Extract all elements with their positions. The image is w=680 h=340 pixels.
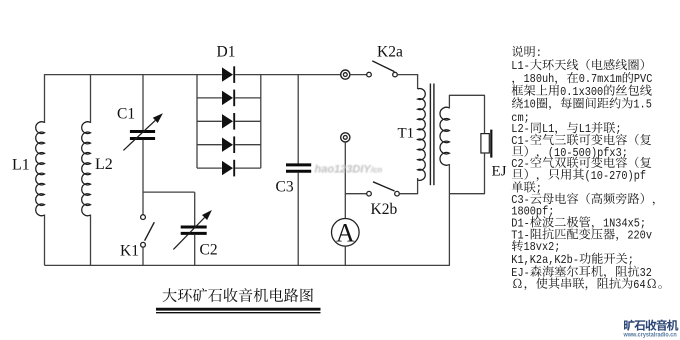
svg-text:EJ-: EJ- [511,266,530,280]
diode D1 parallel element 2 [222,91,233,105]
variable capacitor C1 arrow [123,120,155,150]
svg-text:(10-270)pf: (10-270)pf [585,169,647,183]
svg-text:L1: L1 [579,122,591,136]
svg-text:C2: C2 [200,241,218,258]
svg-text:hao123DIY/cn: hao123DIY/cn [315,164,383,176]
svg-text:C2-: C2- [511,157,530,171]
wire binding post to ammeter [344,142,346,219]
diode ladder rung 2 wires [197,97,222,99]
watermark [315,164,383,176]
svg-text:L1: L1 [542,122,554,136]
svg-text:L1: L1 [12,156,30,173]
svg-text:K1,K2a,K2b-: K1,K2a,K2b- [511,253,579,267]
wire earphone bottom loop [484,153,486,194]
binding post terminal (top) [341,70,350,79]
diode ladder rung 5 wires [197,167,222,169]
diode D1 (top, in series on top rail) [222,67,233,81]
variable capacitor C2 branch wire upper [194,192,196,225]
svg-text:(10-500)pfx3;: (10-500)pfx3; [548,146,628,160]
ammeter A [332,219,360,247]
transformer T1 primary coil [418,89,426,181]
wire K2a to transformer primary top [397,74,418,76]
svg-text:L1-: L1- [511,59,530,73]
svg-text:K1: K1 [120,243,139,260]
title underline double [156,308,321,311]
inductor L2 branch wires [90,74,92,123]
diode D1 parallel element 5 [222,161,233,175]
variable capacitor C2 arrow [173,218,204,250]
wire C1 to K1 and junction to C2 [142,140,144,215]
svg-text:1.5: 1.5 [633,98,652,112]
title 大环矿石收音机电路图 [163,288,313,302]
svg-text:180uh: 180uh [524,72,555,86]
switch K2b [367,191,372,196]
variable capacitor C1 branch wire upper [142,74,144,130]
wire top rail right segment to binding post [235,74,341,76]
svg-text::: : [536,46,542,60]
svg-text:A: A [336,218,355,247]
earphone EJ symbol [481,134,489,153]
wire top rail left segment [45,74,222,76]
capacitor C3 plates [286,163,311,166]
logo 旷石收音机 [624,320,678,331]
transformer T1 core [429,84,431,186]
switch K1 [141,215,146,220]
variable capacitor C1 plates [130,130,155,133]
inductor L2 coil [82,122,91,216]
svg-text:D1: D1 [217,44,236,61]
diode ladder left rail [196,74,198,168]
svg-text:www.crystalradio.cn: www.crystalradio.cn [623,332,677,339]
diode D1 parallel element 3 [222,114,233,128]
wire K2b to transformer primary bottom [399,193,418,195]
wire secondary top to earphone [448,95,450,108]
svg-text:220v: 220v [627,229,652,243]
wire K1 to bottom rail [142,247,144,265]
svg-text:C3: C3 [276,178,294,195]
diode ladder rung 4 wires [197,144,222,146]
diode ladder rung 3 wires [197,120,222,122]
svg-text:;: ; [536,182,542,196]
svg-text:T1: T1 [398,126,415,142]
wire ammeter to bottom rail [344,246,346,265]
switch K2a [367,72,372,77]
svg-text:EJ: EJ [492,164,507,180]
svg-text:0.1x300: 0.1x300 [560,85,603,99]
diode ladder right rail [260,74,262,168]
svg-text:64: 64 [633,278,645,292]
wire secondary bottom to bottom rail [448,164,450,265]
svg-text:K2b: K2b [371,201,398,218]
svg-text:PVC: PVC [634,72,653,86]
notes text block 说明 [511,46,661,292]
wire C2 to bottom rail [194,235,196,266]
wire C3 to bottom rail [297,173,299,266]
wire junction to K2b [345,193,366,195]
svg-text:10: 10 [524,98,536,112]
svg-text:C1: C1 [117,105,135,122]
capacitor C3 branch wire upper [297,74,299,164]
inductor L1 coil [36,122,45,216]
diode D1 parallel element 4 [222,138,233,152]
inductor L1 branch wires [44,74,46,123]
variable capacitor C2 plates [181,226,207,229]
wire from binding post to switch K2a [350,74,367,76]
wire bottom rail [45,264,450,266]
transformer T1 secondary coil [440,107,449,165]
binding post terminal (middle) [341,133,350,142]
svg-text:C1-: C1- [511,134,530,148]
svg-text:K2a: K2a [377,43,403,60]
svg-text:L2: L2 [95,156,113,173]
svg-text:;: ; [628,253,634,267]
